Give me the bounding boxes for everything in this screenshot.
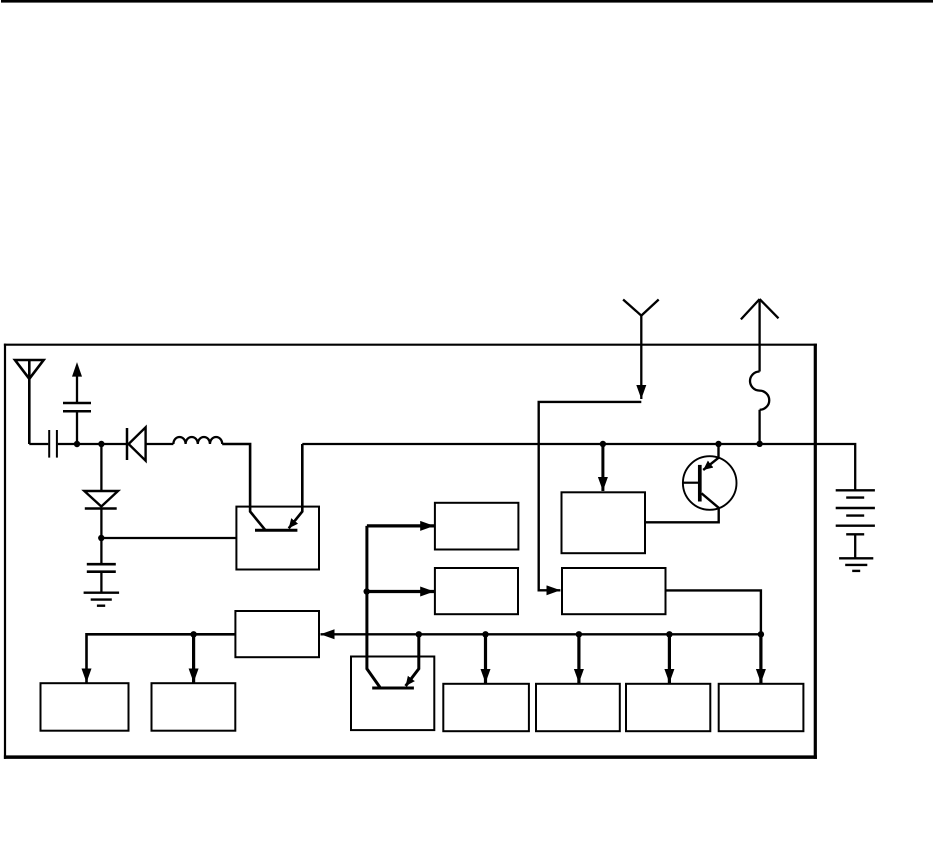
transistor Q3 symbol [372, 634, 419, 688]
node n4 [600, 441, 606, 447]
oscillator box Q3 [351, 657, 434, 731]
antenna Y (receive) [623, 300, 659, 400]
node n7 [190, 631, 196, 637]
node n2 [98, 441, 104, 447]
arrow to block F [668, 634, 671, 683]
battery BT1 [836, 490, 875, 558]
output block D [443, 684, 529, 731]
RF amp box Q1 [236, 507, 319, 570]
diode D1 [127, 427, 146, 460]
ground GND2 [839, 558, 873, 571]
wire Y antenna to mixer [539, 402, 642, 590]
main supply bus [302, 444, 855, 490]
output block E [536, 684, 620, 731]
output block A [41, 683, 129, 731]
control box [235, 611, 319, 657]
node n3 [98, 535, 104, 541]
capacitor C1 (series) [49, 430, 57, 458]
output block F [626, 684, 710, 731]
wire control to outputs [87, 634, 236, 682]
node n8 [416, 631, 422, 637]
node n1 [74, 441, 80, 447]
arrow bus to IF box [601, 444, 604, 491]
node n9 [482, 631, 488, 637]
node n10 [576, 631, 582, 637]
transistor Q1 symbol [255, 444, 302, 530]
wire L1 to Q1 box (left lead) [222, 444, 265, 530]
wire D1 to L1 [146, 443, 174, 445]
wire n3 to Q1 box [101, 537, 236, 539]
IC outline (main block border) [4, 344, 817, 759]
IF amp box [562, 492, 646, 553]
diode D2 (shunt) [84, 444, 118, 564]
mixer box [562, 568, 666, 614]
capacitor C3 [87, 564, 116, 593]
wire antenna to C1 [29, 443, 48, 445]
osc out box 2 [435, 568, 518, 614]
output block G [719, 684, 804, 731]
node n5 [715, 441, 721, 447]
arrow n7 to block B [192, 634, 195, 682]
arrow to block D [484, 634, 487, 683]
header rule [1, 0, 933, 3]
flexible lead (squiggle) [750, 372, 769, 410]
arrow to block E [577, 634, 580, 683]
oscillator feed line [364, 526, 435, 687]
capacitor C2 with output arrow [63, 362, 91, 444]
antenna ANT1 [15, 360, 44, 444]
lower bus [321, 633, 761, 635]
wire C1 to D1 [58, 443, 127, 445]
transistor Q2 (circled) [645, 444, 737, 522]
inductor L1 [173, 437, 222, 444]
osc out box 1 [435, 503, 519, 550]
node n12 [758, 631, 764, 637]
node n6 [756, 441, 762, 447]
arrow to block G [759, 634, 762, 683]
node n11 [666, 631, 672, 637]
power arrow (up) [741, 299, 779, 371]
output block B [152, 683, 236, 731]
wire mixer to lower bus [665, 590, 761, 633]
ground GND1 [84, 593, 120, 606]
